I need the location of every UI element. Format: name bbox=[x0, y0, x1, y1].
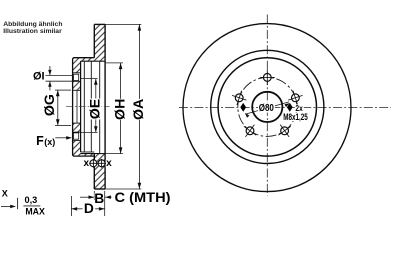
svg-text:x: x bbox=[106, 158, 112, 169]
svg-text:MAX: MAX bbox=[25, 206, 45, 216]
svg-text:ØG: ØG bbox=[42, 94, 58, 116]
svg-text:Illustration similar: Illustration similar bbox=[3, 28, 62, 35]
svg-text:ØH: ØH bbox=[112, 99, 128, 120]
svg-text:ØE: ØE bbox=[88, 99, 104, 120]
svg-text:X: X bbox=[2, 189, 8, 199]
svg-text:Abbildung ähnlich: Abbildung ähnlich bbox=[3, 21, 62, 28]
svg-text:ØI: ØI bbox=[33, 71, 45, 83]
svg-text:(x): (x) bbox=[44, 137, 55, 147]
svg-text:C (MTH): C (MTH) bbox=[115, 190, 171, 205]
svg-text:F: F bbox=[36, 134, 44, 148]
svg-text:ØA: ØA bbox=[131, 99, 147, 120]
svg-text:0,3: 0,3 bbox=[25, 195, 38, 205]
svg-text:M8x1,25: M8x1,25 bbox=[283, 112, 308, 122]
svg-text:Ø80: Ø80 bbox=[259, 103, 274, 114]
svg-text:B: B bbox=[94, 191, 104, 206]
svg-text:x: x bbox=[84, 158, 90, 169]
svg-text:D: D bbox=[84, 201, 94, 216]
